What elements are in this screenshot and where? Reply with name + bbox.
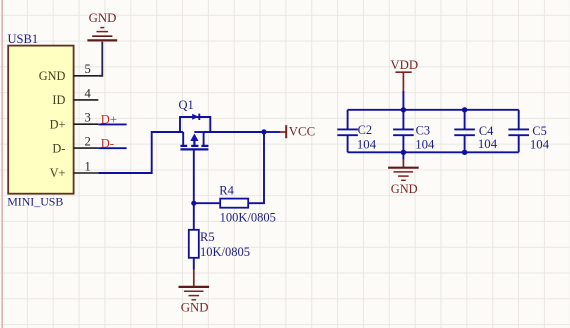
svg-text:ID: ID [52, 93, 65, 107]
svg-text:C4: C4 [479, 124, 493, 138]
svg-text:GND: GND [89, 11, 117, 25]
svg-text:GND: GND [181, 301, 209, 315]
wire VCC node to power port [264, 131, 286, 133]
wire gate node down to R5 [193, 203, 195, 230]
svg-text:104: 104 [530, 137, 550, 151]
svg-text:R4: R4 [219, 184, 234, 198]
wire gate node to R4 [194, 202, 220, 204]
pin 5 GND [39, 62, 99, 83]
svg-text:MINI_USB: MINI_USB [7, 194, 63, 208]
power port VDD [390, 58, 418, 91]
svg-text:D-: D- [101, 136, 114, 150]
junction dot top bus C3 [401, 107, 406, 112]
svg-text:VDD: VDD [390, 58, 418, 72]
svg-text:104: 104 [357, 137, 377, 151]
designator USB1 [8, 32, 39, 46]
wire bottom bus to ground [402, 152, 404, 167]
svg-text:1: 1 [84, 159, 90, 173]
power port GND top-left [87, 11, 117, 40]
power port VCC [286, 125, 315, 139]
svg-text:3: 3 [84, 111, 90, 125]
svg-text:C5: C5 [532, 124, 546, 138]
junction dot gate node [191, 201, 196, 206]
capacitor C2 [337, 110, 376, 153]
svg-text:C2: C2 [358, 123, 372, 137]
wire top bus [348, 109, 519, 111]
pin 2 D- [52, 135, 98, 156]
svg-text:GND: GND [391, 182, 418, 196]
footprint label MINI_USB [7, 194, 63, 208]
junction dot VCC node [261, 129, 266, 134]
svg-text:D+: D+ [101, 113, 117, 127]
wire net D- [98, 147, 126, 149]
wire pin1 V+ to Q1 [98, 132, 183, 173]
svg-text:D-: D- [52, 141, 65, 155]
wire VCC node down to R4 [248, 132, 264, 203]
pin 4 ID [52, 86, 98, 107]
junction dot bottom bus C3 [401, 150, 406, 155]
svg-text:104: 104 [415, 137, 435, 151]
svg-text:2: 2 [84, 135, 90, 149]
power port GND below C3 [388, 168, 419, 196]
svg-text:USB1: USB1 [8, 32, 39, 46]
svg-text:C3: C3 [416, 124, 430, 138]
transistor Q1 MOSFET symbol [180, 132, 208, 149]
pin 1 V+ [50, 159, 99, 180]
svg-text:Q1: Q1 [179, 98, 194, 112]
wire VDD to top bus [402, 91, 404, 110]
capacitor C5 [508, 110, 549, 153]
connector USB1 body [8, 46, 73, 194]
resistor R5 [189, 230, 250, 259]
capacitor C3 [393, 110, 435, 153]
wire bottom bus [348, 151, 519, 153]
power port GND below R5 [179, 287, 210, 315]
wire Q1 gate down [193, 150, 195, 203]
svg-text:4: 4 [84, 86, 91, 100]
svg-text:V+: V+ [50, 166, 66, 180]
svg-text:D+: D+ [50, 117, 66, 131]
wire Q1 to VCC node [204, 131, 264, 133]
svg-text:104: 104 [478, 137, 498, 151]
resistor R4 [219, 184, 276, 225]
wire R5 to ground [193, 258, 195, 286]
svg-text:100K/0805: 100K/0805 [220, 210, 276, 224]
svg-text:5: 5 [84, 62, 90, 76]
net label D- [101, 136, 114, 150]
capacitor C4 [454, 110, 497, 153]
wire net D+ [98, 123, 126, 125]
transistor Q1 body-diode loop [180, 114, 210, 132]
svg-text:VCC: VCC [289, 125, 315, 139]
wire pin5 to GND port [98, 42, 102, 76]
svg-text:GND: GND [39, 69, 66, 83]
net label D+ [101, 113, 117, 127]
svg-text:10K/0805: 10K/0805 [200, 245, 250, 259]
junction dot bottom bus C4 [462, 150, 467, 155]
junction dot top bus C4 [462, 107, 467, 112]
svg-text:R5: R5 [200, 230, 215, 244]
pin 3 D+ [50, 111, 99, 132]
transistor Q1 designator [179, 98, 194, 112]
